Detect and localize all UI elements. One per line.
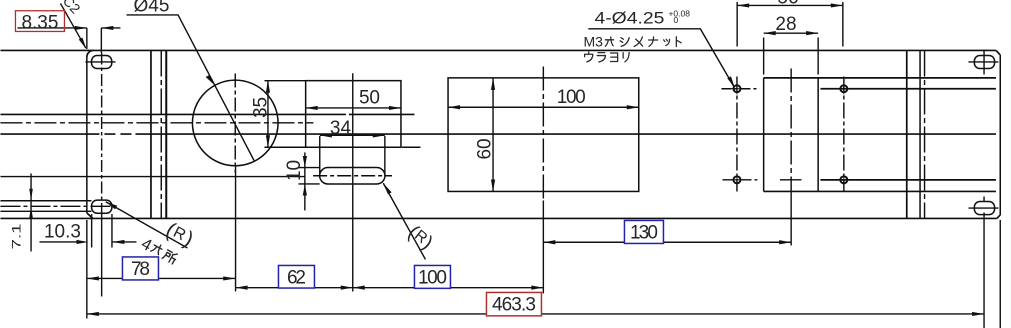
obround top-left crosshair [85, 61, 115, 63]
svg-text:4-Ø4.25: 4-Ø4.25 [594, 9, 664, 27]
dimension 130 [543, 241, 791, 243]
hole C bottom-left of four [731, 174, 743, 186]
dimension 34 [320, 134, 385, 136]
svg-text:35: 35 [250, 97, 271, 118]
ext 28 dim rect edges up [764, 37, 819, 74]
leader slot R [383, 183, 425, 259]
dimension 10.3 [39, 241, 136, 243]
circle hole D45 [192, 80, 278, 166]
right line y=179.4 [820, 179, 996, 181]
dimension top 56 [737, 4, 843, 6]
top-right corner chamfer [996, 50, 1000, 55]
ext part left edge below [86, 220, 88, 319]
right lines y=77.4 [764, 77, 996, 79]
svg-text:0: 0 [673, 15, 678, 25]
svg-text:+0.08: +0.08 [668, 8, 690, 18]
svg-text:50: 50 [359, 87, 380, 108]
obround hole top-right [974, 55, 994, 68]
long edge line y=133.4 [0, 133, 996, 135]
svg-text:130: 130 [630, 222, 658, 243]
leader 4kasho [106, 202, 188, 248]
obround centerline y=205.9 [0, 205, 114, 207]
obround top ext line y=200.3 [0, 200, 91, 202]
svg-text:100: 100 [557, 87, 586, 108]
dimension 8.35 left arrow [75, 26, 87, 30]
svg-text:463.3: 463.3 [492, 294, 536, 315]
vertical solid x=906.3 [906, 50, 908, 218]
rect50 bottom extension [264, 146, 420, 148]
leader D45 [126, 15, 254, 161]
ext obround centerline below [101, 213, 103, 296]
ext top dim hole columns up [737, 2, 843, 47]
leader C2 [60, 3, 85, 48]
svg-text:8.35: 8.35 [21, 12, 58, 33]
obround bottom ext line y=210.9 [0, 210, 91, 212]
ext 8.35 hole center up [100, 28, 102, 53]
dimension 34 extensions to slot [320, 136, 385, 176]
svg-text:56: 56 [777, 0, 798, 9]
top-left corner round [87, 50, 94, 57]
hole column centerline x=843.4 [843, 76, 845, 191]
svg-text:34: 34 [330, 118, 352, 139]
dimension 35 [267, 81, 269, 148]
hole D bottom-right of four [838, 174, 850, 186]
right line y=88.3 [820, 88, 996, 90]
ext slot centerline long [352, 73, 354, 291]
vertical solid x=919.6 [919, 50, 921, 218]
ext part right edge below [999, 220, 1001, 328]
vertical centerline x=160.8 [160, 50, 162, 218]
vertical thick x=165.8 [165, 50, 167, 218]
box blue 62 [278, 265, 314, 288]
text urayori note [585, 52, 593, 62]
svg-text:7.1: 7.1 [11, 223, 23, 249]
rect 50x35 [306, 81, 401, 148]
note R left [162, 218, 197, 251]
part right edge [999, 55, 1001, 215]
box blue 100 [414, 265, 450, 288]
dimension 7.1 down arrow [29, 189, 33, 200]
hole row centerline top left [721, 88, 756, 90]
hole row center dash in rect [780, 179, 802, 181]
part top edge [0, 49, 996, 51]
obround hole top-left [92, 55, 112, 68]
tall rect [764, 78, 819, 192]
obround hole bottom-right [974, 202, 994, 215]
obround top-right crosshair [968, 49, 998, 74]
dimension 8.35 right arrow [101, 26, 113, 30]
svg-text:Ø45: Ø45 [133, 0, 169, 16]
big rect 100x60 [448, 78, 639, 192]
ext rect100 centerline down [542, 200, 544, 293]
ext rect28 centerline down [790, 191, 792, 245]
tall rect vertical centerline [790, 68, 792, 191]
dimension 463.3 [87, 313, 984, 315]
big rect vertical centerline [542, 66, 544, 200]
svg-text:62: 62 [287, 267, 306, 288]
hole row centerline bottom left [722, 179, 757, 181]
hole B top-right of four [838, 83, 850, 95]
vertical solid x=150.5 [150, 50, 152, 218]
right lines y=191 [764, 190, 996, 192]
slot centerline [313, 175, 392, 177]
dimension 8.35 line [17, 27, 120, 29]
svg-text:10: 10 [284, 160, 305, 181]
edge line y=113.6 [0, 113, 414, 115]
obround hole bottom-left [92, 200, 112, 213]
text 4-kasho (4 places) rotated [138, 235, 179, 269]
dimension 10 [304, 152, 306, 210]
dimension 78 [87, 277, 235, 279]
ext obround right column down [983, 212, 985, 328]
ext obround edges below [92, 214, 112, 248]
part bottom edge [0, 217, 996, 219]
circle vertical centerline [234, 73, 236, 172]
bottom-left corner chamfer [87, 213, 93, 219]
dimension 62 and 100 chain [236, 287, 544, 289]
slot top extension [298, 167, 319, 169]
vertical centerline x=924.1 [924, 50, 926, 218]
slot bottom extension [298, 183, 319, 185]
dimension 100 rect [448, 106, 639, 108]
svg-text:10.3: 10.3 [44, 222, 81, 243]
svg-text:28: 28 [775, 14, 796, 35]
rect50 top extension [264, 80, 306, 82]
svg-text:100: 100 [418, 267, 447, 288]
ext 8.35 part edge up [86, 28, 88, 49]
svg-text:78: 78 [131, 259, 150, 280]
svg-text:M3: M3 [583, 33, 603, 49]
leader 4-D4.25 [588, 29, 734, 87]
bottom-right corner chamfer [997, 215, 1000, 219]
svg-text:4: 4 [138, 235, 155, 255]
obround bottom-right crosshair [968, 196, 998, 208]
edge line y=176.1 [0, 176, 304, 178]
slot obround 34x10 [320, 168, 385, 184]
dimension 60 rect [492, 78, 494, 192]
box red 463.3 [486, 292, 541, 315]
dimension 7.1 line [30, 173, 32, 251]
ext circle center down [235, 166, 237, 291]
obround left column centerline [101, 52, 103, 213]
dimension 7.1 up arrow [29, 207, 33, 218]
box red 8.35 [15, 11, 64, 34]
hole column centerline x=736.5 [736, 76, 738, 191]
box blue 78 [122, 257, 158, 280]
note R slot [404, 221, 437, 254]
svg-text:60: 60 [474, 138, 495, 159]
part left edge [86, 57, 88, 213]
hole A top-left of four [731, 83, 743, 95]
dimension 28 [764, 32, 819, 34]
box blue 130 [624, 220, 663, 243]
centerline y=122.4 [0, 122, 313, 124]
dimension 50 [306, 107, 401, 109]
